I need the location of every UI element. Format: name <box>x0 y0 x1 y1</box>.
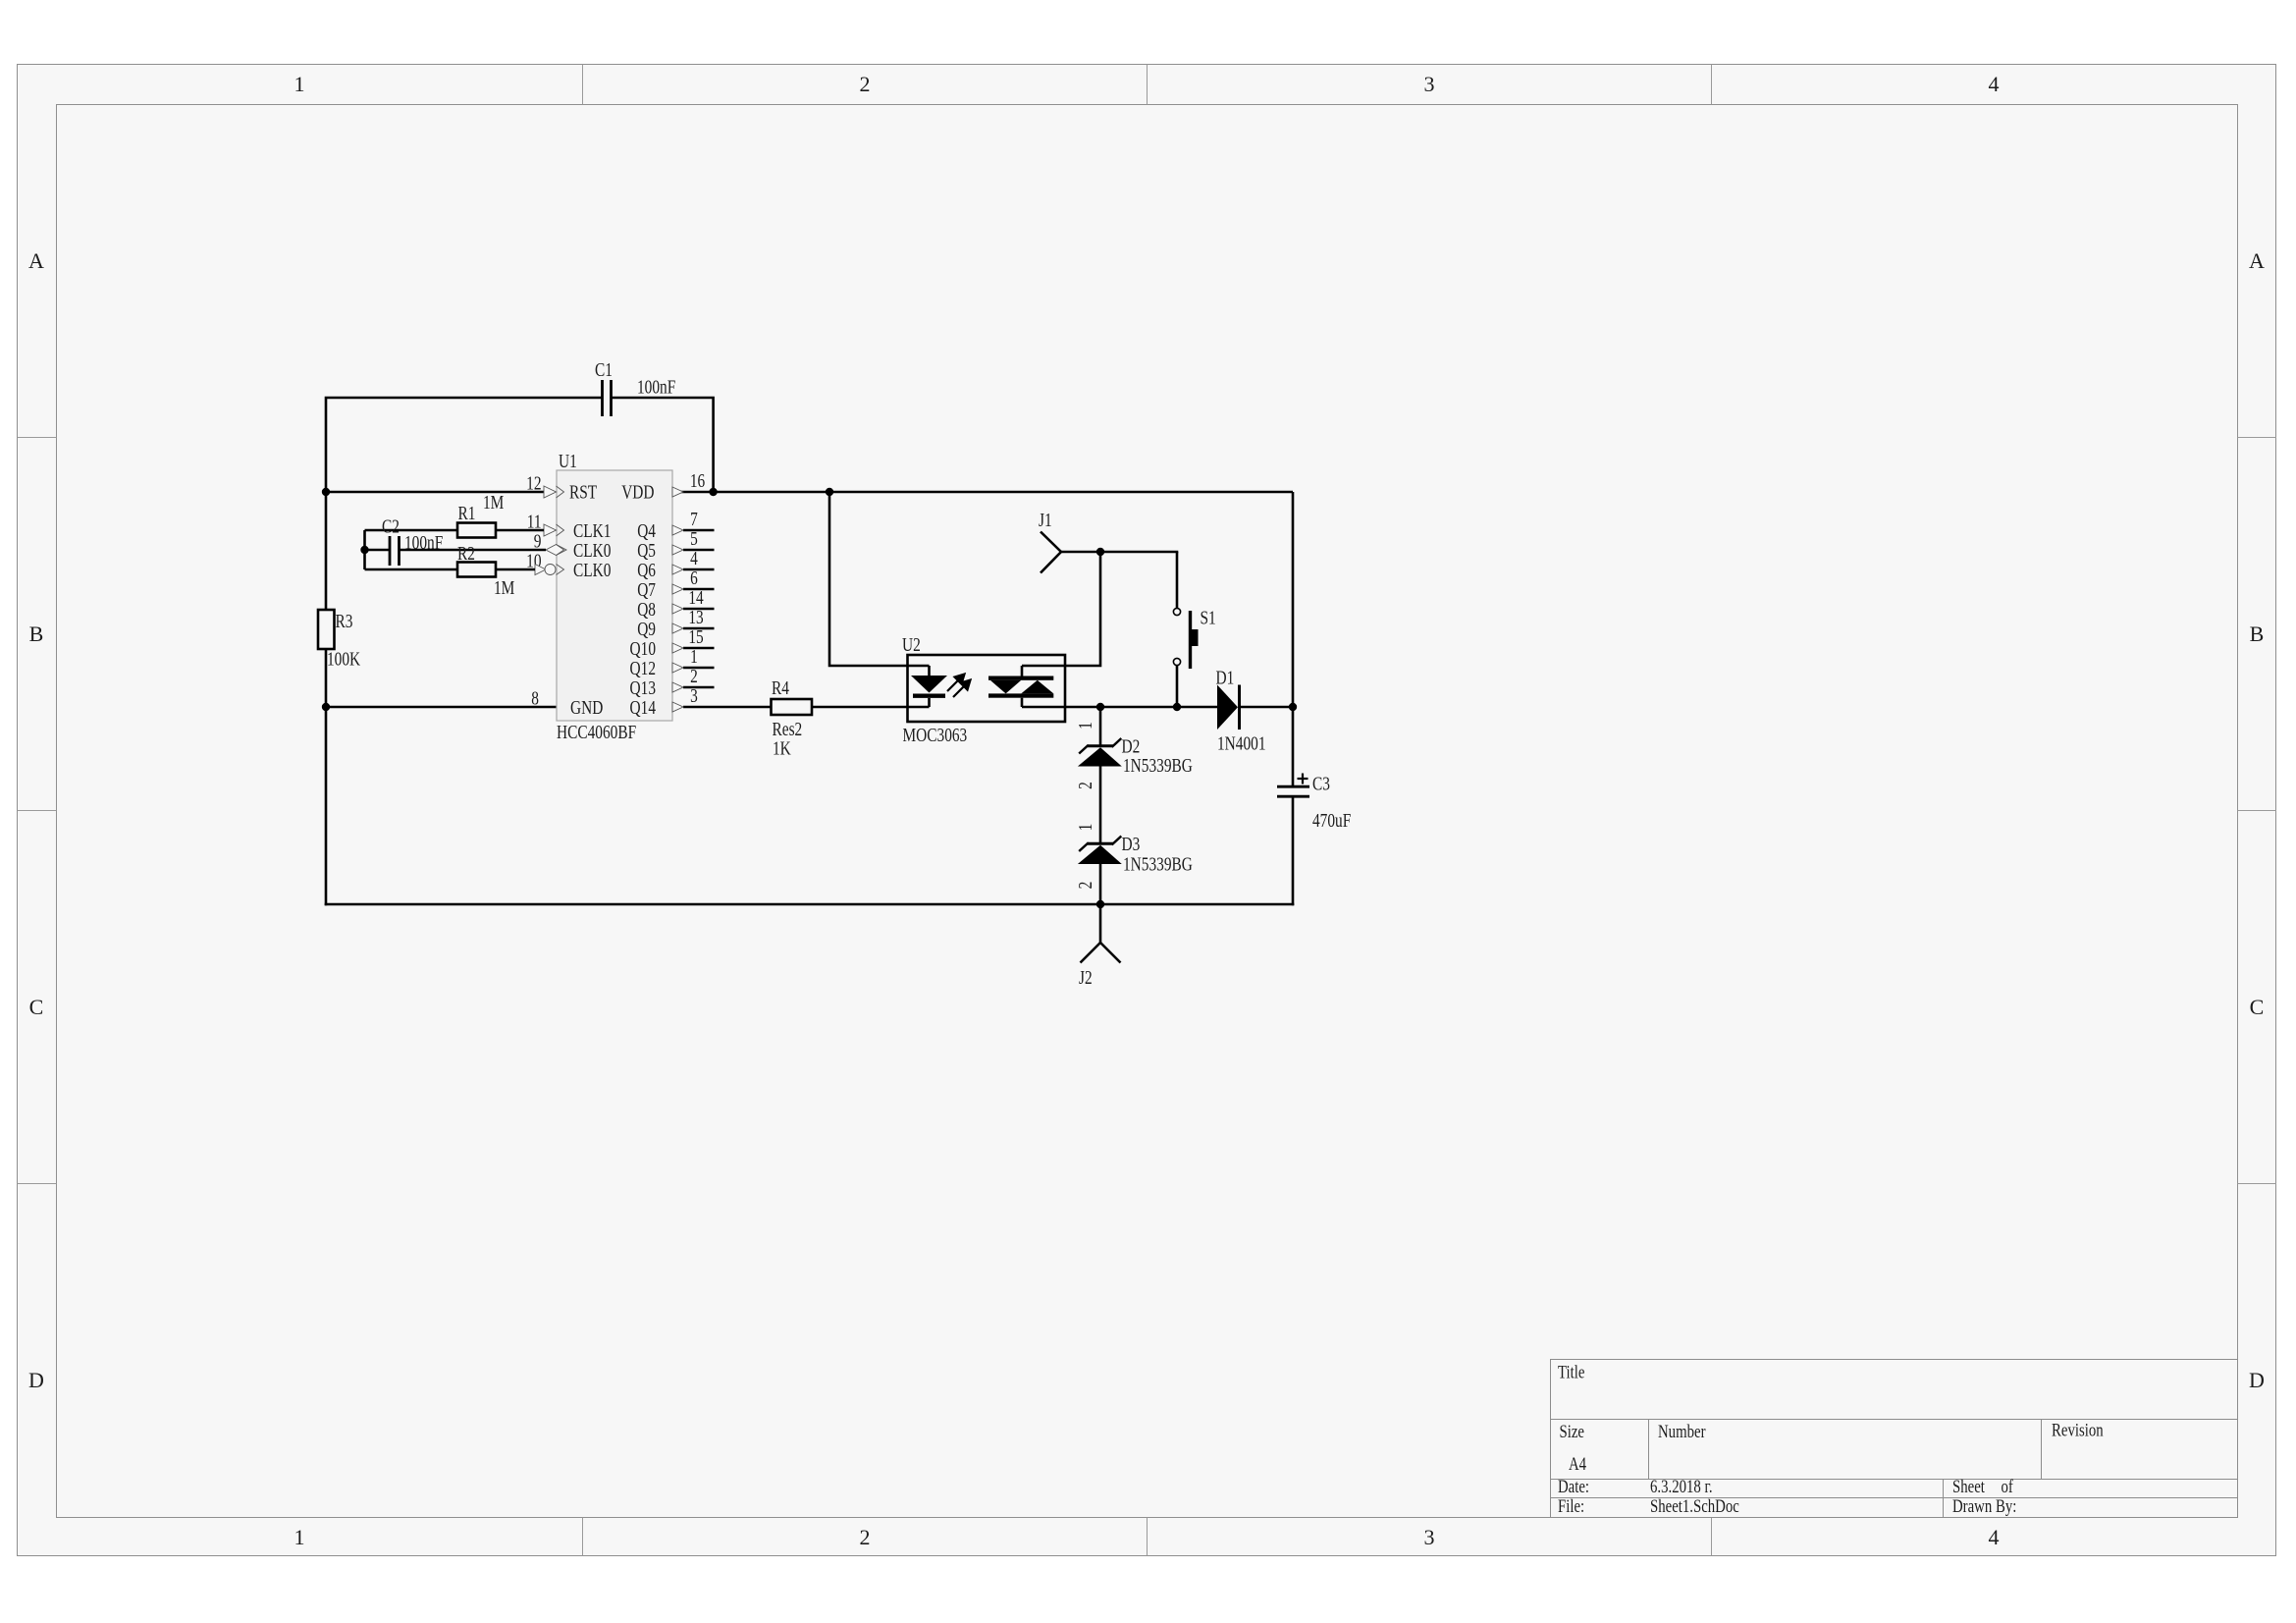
diode D1 1N4001 <box>1216 666 1266 754</box>
U1 pin numbers right <box>688 469 705 707</box>
IC U1 HCC4060BF <box>557 450 672 743</box>
wire J1 net <box>1061 551 1178 554</box>
svg-text:2: 2 <box>1074 782 1096 789</box>
wire stub Q4 pin 7 <box>683 529 715 532</box>
U1 pin numbers left <box>526 471 541 709</box>
svg-text:Size: Size <box>1560 1421 1584 1441</box>
svg-text:1: 1 <box>1074 824 1096 832</box>
pin 9 diamond <box>546 545 566 556</box>
junction J1 net <box>1096 548 1104 556</box>
capacitor C3 470uF <box>1277 772 1351 831</box>
svg-text:100K: 100K <box>327 647 360 670</box>
zone row dividers left <box>18 437 57 439</box>
svg-text:J1: J1 <box>1039 509 1052 531</box>
svg-text:CLK0: CLK0 <box>573 559 611 581</box>
wire S1 to rail <box>1176 666 1179 708</box>
junction rail-C3 <box>1289 703 1297 711</box>
wire J1 to U2 triac MT2 <box>1022 552 1100 666</box>
oscillator cluster wires <box>365 530 547 569</box>
U2 triac <box>988 676 1053 698</box>
wire right vertical to C3 <box>1292 492 1295 786</box>
svg-text:RST: RST <box>569 480 597 503</box>
wire bottom rail <box>325 903 1295 906</box>
svg-text:Drawn By:: Drawn By: <box>1952 1495 2016 1516</box>
svg-text:R1: R1 <box>458 502 476 524</box>
wire D2 to D3 <box>1099 767 1102 844</box>
zone column dividers bottom <box>582 1518 584 1556</box>
svg-text:2: 2 <box>1074 882 1096 890</box>
capacitor C2 <box>382 514 443 566</box>
svg-text:B: B <box>29 622 44 646</box>
svg-text:D: D <box>28 1368 44 1392</box>
svg-text:Date:: Date: <box>1558 1476 1589 1496</box>
svg-text:2: 2 <box>860 72 871 96</box>
svg-text:C2: C2 <box>382 514 400 537</box>
svg-text:A: A <box>2249 248 2265 273</box>
wire RST net <box>326 491 546 494</box>
svg-text:1N5339BG: 1N5339BG <box>1123 852 1193 875</box>
svg-text:B: B <box>2250 622 2265 646</box>
wire CLK0 row C2 left <box>365 549 391 552</box>
svg-text:A: A <box>28 248 44 273</box>
svg-text:100nF: 100nF <box>637 375 675 398</box>
resistor R2 <box>457 542 514 599</box>
svg-text:Sheet: Sheet <box>1952 1476 1985 1496</box>
resistor R3 <box>318 610 360 670</box>
junction bus-RST <box>322 488 330 496</box>
connector J1 <box>1039 509 1061 573</box>
wire left bus lower <box>325 649 328 905</box>
junction bus-GND <box>322 703 330 711</box>
wire Q14 to R4 <box>683 706 772 709</box>
svg-text:1N5339BG: 1N5339BG <box>1123 754 1193 777</box>
wire stub Q6 pin 4 <box>683 568 715 571</box>
svg-text:Number: Number <box>1658 1421 1706 1441</box>
svg-text:Sheet1.SchDoc: Sheet1.SchDoc <box>1650 1495 1739 1516</box>
svg-text:1: 1 <box>294 1525 305 1549</box>
svg-text:File:: File: <box>1558 1495 1584 1516</box>
pin 10 arrow with circle <box>535 565 564 575</box>
svg-text:3: 3 <box>1424 72 1435 96</box>
svg-text:C: C <box>2250 995 2265 1019</box>
svg-text:100nF: 100nF <box>404 531 443 554</box>
svg-text:Q14: Q14 <box>630 696 656 719</box>
wire GND net <box>326 706 557 709</box>
U1 pin names <box>569 480 656 718</box>
svg-text:12: 12 <box>526 471 541 494</box>
wire CLK1 row right <box>496 529 544 532</box>
svg-text:16: 16 <box>690 469 705 492</box>
svg-text:4: 4 <box>1989 72 2000 96</box>
zener diode D2 1N5339BG <box>1074 722 1193 789</box>
svg-text:VDD: VDD <box>621 480 654 503</box>
wire D3 to bottom rail <box>1099 864 1102 904</box>
wire stub Q10 pin 15 <box>683 647 715 650</box>
capacitor C1 <box>595 358 675 416</box>
wire stub Q8 pin 14 <box>683 608 715 611</box>
zone column dividers top <box>582 65 584 105</box>
svg-text:6.3.2018 г.: 6.3.2018 г. <box>1650 1476 1713 1496</box>
CIRCUIT <box>318 358 1351 989</box>
switch S1 <box>1173 606 1215 669</box>
wire S1 drop <box>1176 552 1179 609</box>
svg-text:U1: U1 <box>559 450 577 472</box>
junction VDD-C1 <box>709 488 717 496</box>
svg-text:R2: R2 <box>457 542 475 565</box>
U1 pin arrow decorations <box>535 486 683 712</box>
resistor R4 <box>772 676 813 759</box>
junction rail-D2 <box>1096 703 1104 711</box>
svg-text:1: 1 <box>1074 722 1096 730</box>
wire D1 cathode to vertical <box>1239 706 1293 709</box>
svg-text:470uF: 470uF <box>1312 809 1351 832</box>
optocoupler U2 MOC3063 <box>902 633 1065 746</box>
wire CLK0b row right <box>496 568 535 571</box>
wire stub Q9 pin 13 <box>683 627 715 630</box>
wire C1 right to VDD <box>612 398 714 492</box>
wire D2 branch top <box>1099 707 1102 746</box>
svg-text:1K: 1K <box>773 736 791 759</box>
wire top C1 loop <box>326 398 603 610</box>
svg-text:1: 1 <box>294 72 305 96</box>
svg-text:HCC4060BF: HCC4060BF <box>557 721 636 743</box>
svg-text:C1: C1 <box>595 358 613 381</box>
junction VDD-U2 drop <box>826 488 833 496</box>
U1 output pin stubs Q4-Q13 <box>683 530 715 687</box>
wire C2 cluster vertical <box>363 530 366 569</box>
wire VDD net <box>672 491 1293 494</box>
wire C3 to bottom rail <box>1292 797 1295 906</box>
svg-text:J2: J2 <box>1079 966 1093 989</box>
wire stub Q12 pin 1 <box>683 667 715 670</box>
U2 LED emission arrows <box>947 675 971 698</box>
wire CLK0b row left <box>365 568 458 571</box>
svg-text:D3: D3 <box>1122 833 1141 855</box>
U2 LED <box>911 666 947 707</box>
junction bottom-J2 <box>1096 900 1104 908</box>
svg-text:MOC3063: MOC3063 <box>903 724 968 746</box>
svg-text:1M: 1M <box>483 491 504 514</box>
resistor R1 <box>457 491 504 538</box>
junction C2 cluster <box>360 546 368 554</box>
svg-text:U2: U2 <box>902 633 921 656</box>
svg-text:C3: C3 <box>1312 772 1330 794</box>
svg-text:D1: D1 <box>1216 666 1235 688</box>
output pin chevrons <box>672 487 683 712</box>
wire U2 LED anode drop <box>829 492 930 666</box>
svg-text:R3: R3 <box>336 610 353 632</box>
svg-text:1M: 1M <box>494 576 514 599</box>
svg-text:Revision: Revision <box>2052 1420 2104 1440</box>
svg-text:1N4001: 1N4001 <box>1217 731 1266 754</box>
wire R4 to U2 LED cathode <box>812 706 930 709</box>
zener diode D3 1N5339BG <box>1074 824 1193 890</box>
svg-text:S1: S1 <box>1201 606 1216 628</box>
TITLEBLOCK <box>1551 1360 2238 1518</box>
zone row dividers right <box>2238 437 2277 439</box>
svg-text:D: D <box>2249 1368 2265 1392</box>
svg-text:C: C <box>29 995 44 1019</box>
U2 triac leads <box>1021 666 1024 707</box>
wire CLK0 row C2 right <box>400 549 547 552</box>
wire stub Q5 pin 5 <box>683 549 715 552</box>
svg-text:3: 3 <box>1424 1525 1435 1549</box>
junction rail-S1 <box>1173 703 1181 711</box>
svg-text:A4: A4 <box>1569 1453 1587 1474</box>
connector J2 <box>1079 904 1121 989</box>
wire stub Q13 pin 2 <box>683 686 715 689</box>
svg-text:GND: GND <box>570 696 603 719</box>
wire stub Q7 pin 6 <box>683 588 715 591</box>
pin 11 arrow <box>544 524 564 536</box>
svg-text:R4: R4 <box>772 676 789 699</box>
svg-text:8: 8 <box>531 686 539 709</box>
svg-text:2: 2 <box>860 1525 871 1549</box>
junction dots <box>322 488 1297 908</box>
svg-text:of: of <box>2002 1476 2014 1496</box>
pin 12 arrow <box>544 486 564 498</box>
wire triac rail <box>1022 706 1217 709</box>
svg-text:Title: Title <box>1558 1362 1584 1382</box>
wire CLK1 row left <box>365 529 458 532</box>
svg-text:4: 4 <box>1989 1525 2000 1549</box>
